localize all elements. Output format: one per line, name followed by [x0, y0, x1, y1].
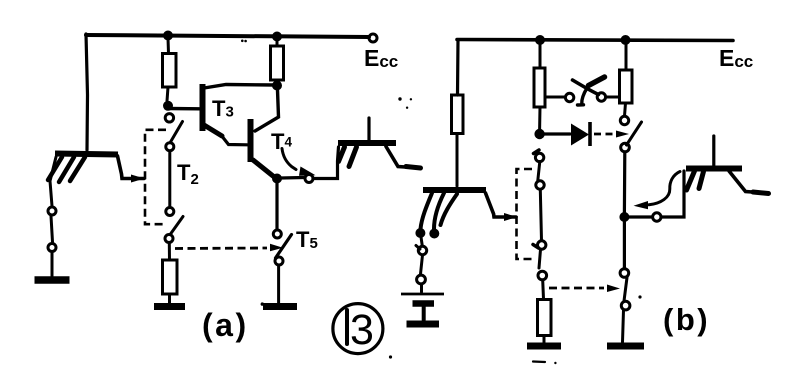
ground (a, left): [35, 276, 70, 284]
wire Vcc rail (b): [457, 40, 733, 41]
switch blade: [539, 250, 541, 269]
wire collector stub up: [367, 118, 370, 140]
transistor T3 emitter arrow: [204, 125, 222, 136]
wire right chain upper: [623, 152, 627, 212]
emitter hatches (b output): [687, 171, 704, 190]
resistor R6: [538, 300, 552, 336]
diode D triangle: [571, 124, 589, 146]
node dot claw2: [429, 229, 439, 239]
contact circle (a output): [305, 175, 313, 183]
switch contact circle: [418, 246, 426, 254]
wire junction to contact: [629, 215, 652, 218]
node dot claw1: [415, 228, 425, 238]
ground (a, middle): [154, 303, 185, 310]
node junction rail-R1: [163, 31, 173, 41]
node junction (b right): [619, 212, 629, 222]
transistor T3 bar: [200, 84, 206, 131]
resistor R3: [452, 95, 464, 134]
wire T1 left leg: [50, 157, 56, 206]
wire output right leg (b): [729, 171, 767, 193]
wire junction down: [623, 222, 626, 269]
switch contact circle: [48, 244, 56, 252]
figure number 13 text: [345, 310, 349, 344]
switch contact circle (b right top): [620, 116, 628, 124]
wire R1 bottom lead: [167, 87, 168, 101]
wire to ground (b right): [623, 310, 624, 342]
node junction rail-R2: [272, 32, 282, 42]
wire R5 bottom lead: [625, 103, 626, 116]
wire Re bottom lead: [168, 294, 171, 303]
diode cathode bar: [588, 122, 592, 146]
resistor Re (a): [163, 260, 178, 294]
battery plate short: [413, 300, 435, 307]
wire collector stub up (b output): [712, 136, 715, 166]
wire output right leg: [386, 147, 421, 169]
switch contact circle (b middle 3): [538, 241, 546, 249]
battery stem: [422, 306, 426, 320]
ground (T5): [263, 303, 297, 310]
switch blade: [538, 162, 540, 181]
arrowhead pointer (b): [634, 201, 649, 209]
wire T1 output arrow into box: [118, 156, 145, 179]
dashed link middle to right switch: [549, 287, 604, 290]
wire to cut contact: [546, 96, 565, 99]
battery plate long: [401, 293, 444, 296]
diode anode wire: [544, 132, 570, 135]
transistor T1 emitter hatches: [48, 157, 85, 182]
output stub end (b): [753, 192, 769, 194]
switch blade (b right top): [627, 122, 642, 145]
switch blade: [51, 216, 53, 242]
arrowhead at switch: [616, 131, 629, 138]
dashed box (b): [517, 169, 535, 259]
switch blade T2 lower: [171, 217, 184, 235]
node junction T4 emitter: [272, 174, 282, 184]
node junction R1-base: [163, 101, 173, 111]
claw hatches (b input): [421, 193, 458, 229]
scissors tail: [578, 88, 588, 105]
dashed wire diode to switch: [594, 133, 614, 136]
switch blade: [533, 245, 539, 249]
wire to battery: [420, 284, 423, 292]
switch contact circle: [165, 235, 173, 243]
wire R2 top lead: [276, 39, 279, 46]
contact circle (b output): [653, 213, 661, 221]
resistor R4: [534, 68, 545, 107]
ground (b right): [607, 343, 644, 350]
arrowhead pointer T4: [299, 167, 316, 176]
wire R1 top lead: [167, 38, 171, 54]
switch contact circle: [166, 143, 174, 151]
blade tick: [416, 246, 420, 250]
wire dot to contact: [421, 237, 422, 246]
speck dots: [398, 97, 401, 100]
wire R6 bottom lead: [543, 336, 546, 344]
switch contact circle: [166, 208, 174, 216]
switch contact circle: [48, 207, 56, 215]
switch contact circle: [417, 275, 426, 284]
wire middle chain: [540, 190, 541, 241]
node junction R2-collector: [272, 81, 282, 91]
resistor R2: [271, 46, 284, 80]
transistor T4 bar: [248, 119, 254, 162]
resistor R1: [163, 54, 177, 88]
switch contact circle (T5 bottom): [275, 257, 283, 265]
wire R4 top lead: [539, 43, 542, 68]
wire R2 bottom lead: [276, 80, 279, 84]
contact circle (cut switch right): [597, 93, 605, 101]
transistor (b input) bar: [423, 187, 486, 193]
wire left vertical (b): [456, 40, 460, 95]
switch contact circle (b middle 2): [536, 181, 544, 189]
svg-text:(b): (b): [663, 302, 710, 337]
figure number 13 circle: [333, 304, 383, 354]
wire T2 middle: [168, 151, 171, 208]
switch blade T2 upper: [171, 122, 183, 143]
svg-text:(a): (a): [202, 307, 249, 343]
wire T4 emitter to contact: [281, 176, 304, 180]
wire R4 bottom lead: [538, 107, 541, 130]
wire to emitter resistor: [168, 243, 171, 260]
wire T5 to ground: [277, 265, 280, 303]
wire to R6: [541, 280, 545, 299]
node junction rail-R5: [621, 35, 631, 45]
switch contact circle (b middle 4): [538, 271, 547, 280]
switch contact circle: [621, 301, 630, 310]
dashed box (a): [145, 130, 166, 224]
wire to R5: [606, 96, 618, 99]
emitter hatches (a output): [339, 147, 357, 167]
resistor R5: [620, 70, 633, 103]
wire collector drop to T4: [255, 90, 279, 131]
arrowhead into box (b): [504, 213, 517, 221]
switch blade T5: [276, 235, 292, 259]
switch contact circle (b middle 1): [535, 153, 543, 161]
arrowhead into dashed box: [131, 175, 145, 183]
curved pointer (b output): [649, 172, 680, 205]
scissors cross stroke 1: [573, 80, 599, 95]
arrowhead right switch: [607, 285, 620, 293]
node junction diode: [534, 129, 544, 139]
wire R3 to input transistor: [456, 134, 459, 187]
wire T3 emitter to T4 base: [221, 135, 247, 145]
wire contact to output transistor: [313, 147, 339, 179]
switch blade: [421, 255, 423, 274]
contact circle (cut switch left): [565, 93, 573, 101]
node junction rail-R4: [535, 35, 545, 45]
wire T3 collector: [204, 85, 275, 89]
switch contact circle: [621, 143, 630, 152]
transistor (b output) bar: [686, 166, 742, 172]
wire to ground: [51, 252, 54, 276]
transistor T1 (input, left) bar: [55, 154, 118, 155]
ground bar (battery): [407, 321, 440, 328]
curved pointer from T4 label: [282, 149, 296, 170]
blade tick (b middle top): [534, 150, 540, 154]
switch contact circle (T2 top): [165, 114, 173, 122]
svg-text:3: 3: [350, 306, 374, 354]
output stub end: [406, 167, 421, 169]
ground (b middle): [527, 343, 561, 350]
dashed link T2 to T5: [175, 247, 267, 250]
switch contact circle (b lower): [620, 269, 629, 278]
switch contact circle (T5 top): [273, 230, 281, 238]
wire base line to T3: [168, 107, 199, 111]
scissors blade thick: [589, 77, 605, 86]
wire R5 top lead: [625, 43, 628, 70]
wire arrow into dashed box (b): [486, 193, 517, 217]
wire left vertical drop: [86, 34, 88, 150]
arrowhead at T5: [270, 244, 283, 252]
wire contact to output transistor: [661, 171, 684, 217]
transistor (a output, right) bar: [338, 140, 396, 146]
wire Vcc rail (a): [86, 35, 369, 37]
wire T4 emitter down to T5: [275, 183, 278, 230]
switch blade (b lower): [624, 278, 627, 302]
terminal Ecc (a): [369, 34, 377, 42]
transistor T4 emitter arrow: [253, 160, 273, 176]
